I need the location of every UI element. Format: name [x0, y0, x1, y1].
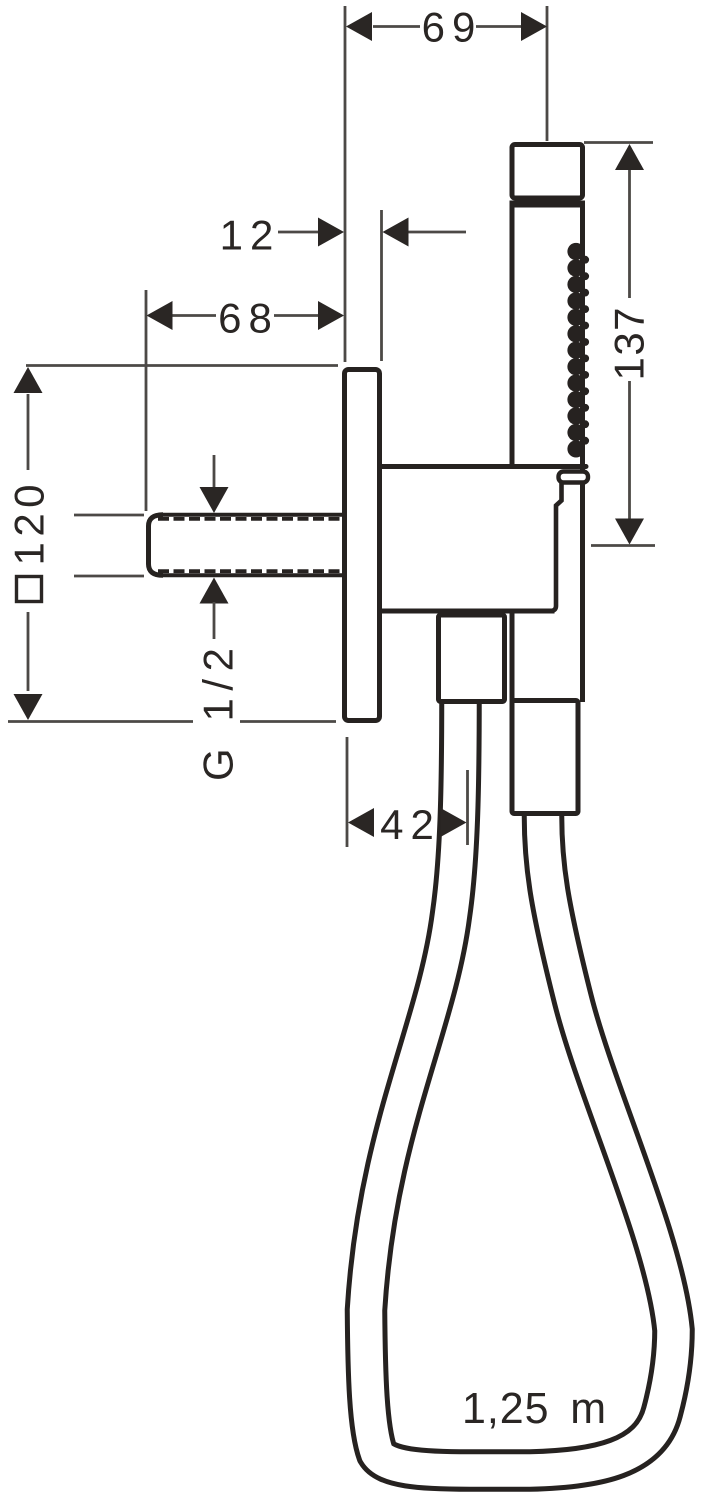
- wand lower left edge: [510, 609, 515, 702]
- holder right face with jog: [550, 474, 562, 611]
- hand shower wand left edge: [510, 205, 515, 466]
- spray nozzle dots: [567, 243, 589, 458]
- dimension 120 bottom extension line: [8, 720, 193, 723]
- hand shower band: [510, 201, 586, 208]
- supply pipe thread dashes top: [158, 517, 343, 521]
- dimension 69 arrows: [346, 12, 372, 41]
- dimension 68 arrows: [147, 301, 173, 330]
- dimension 120 top extension line: [26, 364, 338, 367]
- dimension 137 bottom extension line: [591, 544, 655, 547]
- dimension G 1/2 lower line: [213, 602, 216, 639]
- svg-text:12: 12: [220, 212, 281, 259]
- dimension 69 right extension line: [546, 6, 549, 141]
- dimension 42 right extension line: [466, 770, 469, 845]
- hose nut: [512, 701, 578, 814]
- holder bottom edge: [380, 609, 555, 614]
- dimension 69 left extension line: [344, 6, 347, 362]
- svg-text:1,25 m: 1,25 m: [462, 1384, 607, 1433]
- wall plate: [345, 370, 380, 721]
- dimension G 1/2 arrows: [200, 487, 229, 513]
- dimension G 1/2 side lines: [74, 514, 144, 517]
- svg-text:69: 69: [422, 4, 483, 51]
- dimension 42 left extension line: [346, 737, 349, 847]
- dimension 68 line: [172, 314, 216, 317]
- dimension 137 line: [628, 169, 631, 298]
- dimension 12 line: [278, 231, 318, 234]
- svg-text:G 1/2: G 1/2: [195, 641, 242, 781]
- supply pipe thread dashes bottom: [158, 569, 343, 573]
- dimension 42 arrows: [348, 808, 374, 837]
- holder top edge with pin: [381, 464, 586, 469]
- dimension 69 line: [373, 25, 420, 28]
- dimension 137 arrows: [615, 144, 644, 170]
- dimension G 1/2 upper line: [213, 455, 216, 489]
- dimension 12 right extension line: [380, 210, 383, 361]
- dimension 120 line: [27, 394, 30, 470]
- hand shower wand right edge: [580, 205, 585, 702]
- dimension 120 arrows: [14, 367, 43, 393]
- hose: [366, 696, 674, 1471]
- dimension 120 square symbol: [17, 577, 42, 602]
- svg-text:68: 68: [218, 295, 279, 342]
- holder pin bar: [559, 472, 589, 483]
- dimension 68 extension line: [145, 290, 148, 511]
- dimension 12 arrows: [318, 218, 344, 247]
- hose outlet connector: [439, 615, 505, 702]
- svg-text:120: 120: [6, 478, 53, 566]
- holder body: [380, 465, 561, 614]
- supply pipe outline: [149, 515, 345, 576]
- dimension 137 top extension line: [584, 141, 653, 144]
- hand shower cap: [512, 145, 583, 199]
- svg-text:42: 42: [380, 801, 441, 848]
- svg-text:137: 137: [606, 301, 653, 381]
